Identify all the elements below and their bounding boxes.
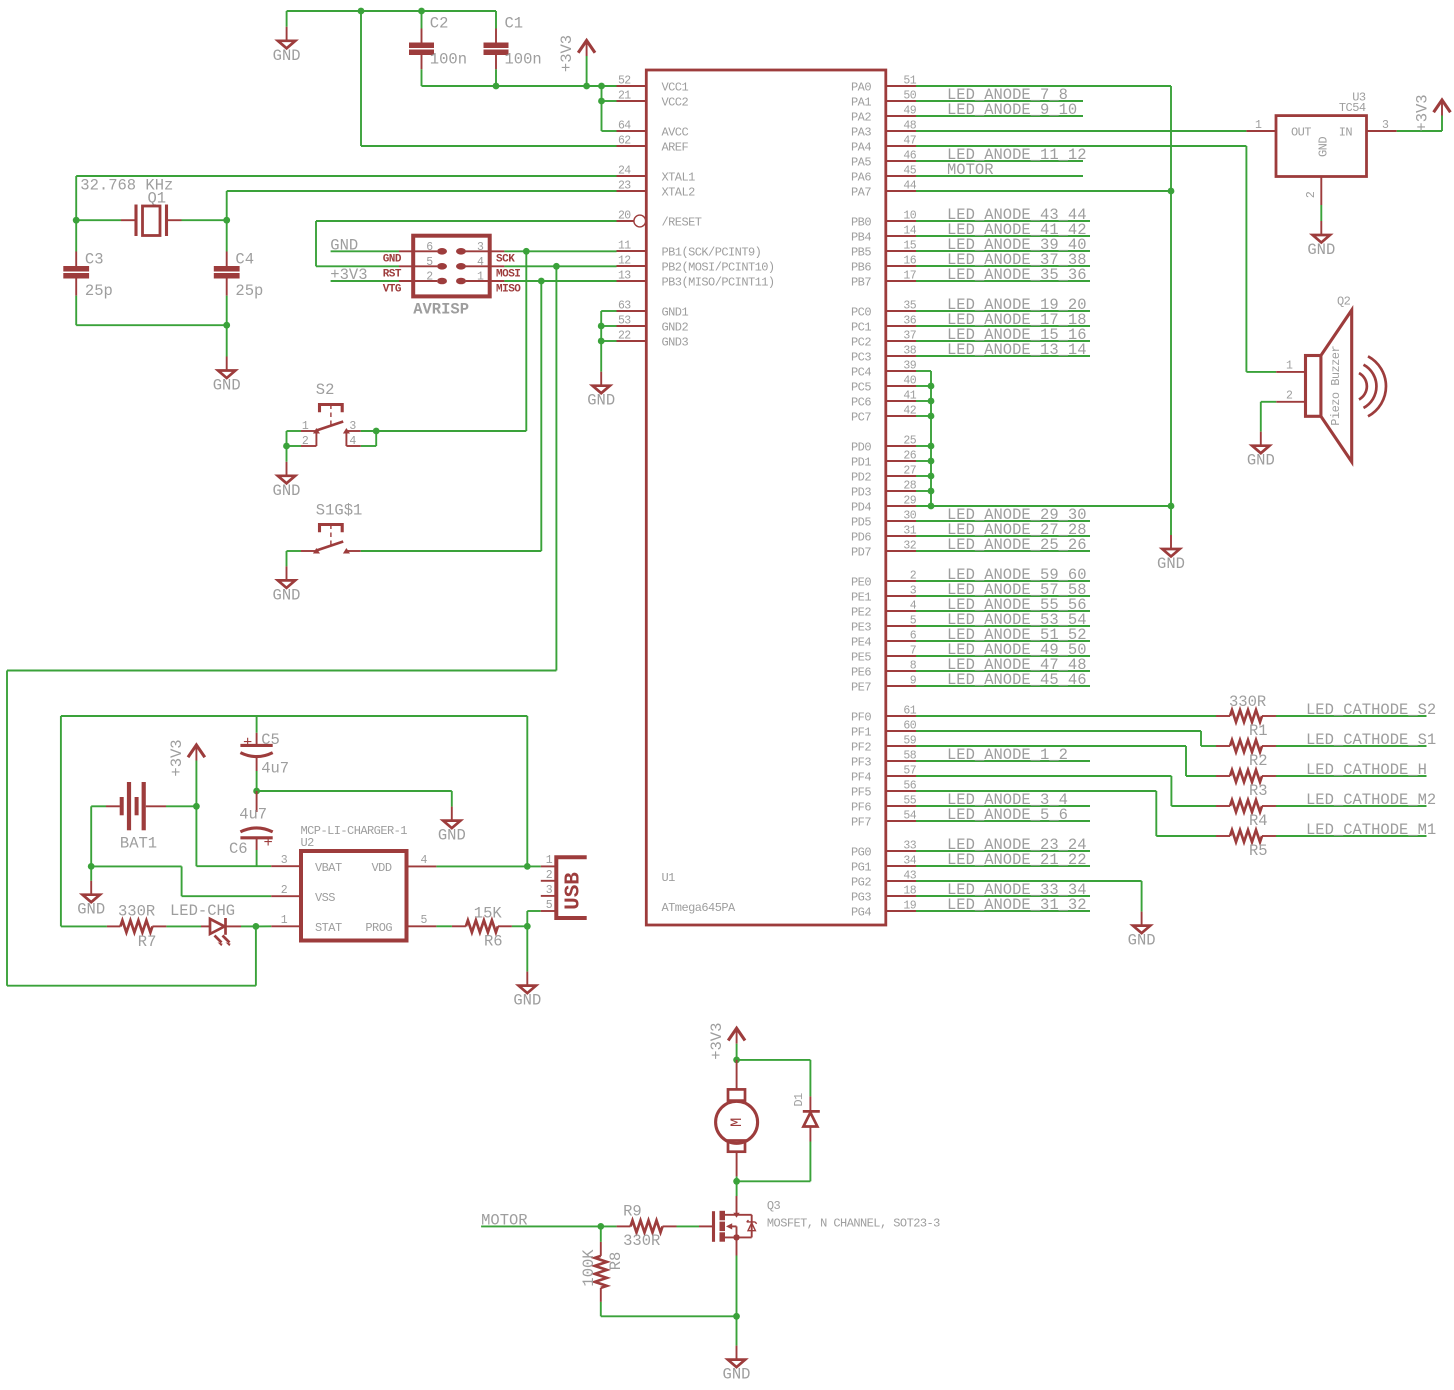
wire AVRISP VTG +3V3 row xyxy=(331,280,399,282)
svg-text:VTG: VTG xyxy=(383,284,402,296)
junction C4 bottom GND node xyxy=(223,322,230,329)
svg-text:22: 22 xyxy=(618,330,631,343)
junction motor / D1 / drain xyxy=(733,1178,740,1185)
svg-text:Q2: Q2 xyxy=(1337,295,1351,309)
junction source / R8 / GND xyxy=(733,1313,740,1320)
svg-text:+3V3: +3V3 xyxy=(330,266,367,284)
wire PG2 to GND xyxy=(916,880,1142,882)
svg-text:R4: R4 xyxy=(1249,812,1268,830)
svg-text:26: 26 xyxy=(903,450,916,463)
transistor Q3 N-channel MOSFET xyxy=(699,1196,757,1256)
svg-text:37: 37 xyxy=(903,330,916,343)
pin 50 PA1 of U1 xyxy=(886,100,916,102)
svg-text:R5: R5 xyxy=(1249,842,1268,860)
svg-text:PG4: PG4 xyxy=(851,906,871,920)
svg-text:14: 14 xyxy=(903,225,916,238)
svg-text:PE0: PE0 xyxy=(851,576,871,590)
svg-text:25: 25 xyxy=(903,435,916,448)
junction battery negative / VSS / GND xyxy=(88,863,95,870)
wire battery positive to +3V3 lead xyxy=(166,805,196,807)
svg-text:10: 10 xyxy=(903,210,916,223)
capacitor C1 xyxy=(484,29,509,70)
svg-text:MOSI: MOSI xyxy=(496,269,520,281)
wire S2 pin3/pin4 to SCK vertical xyxy=(361,430,527,432)
pin 54 PF7 of U1 xyxy=(886,820,916,822)
pin 29 PD4 of U1 xyxy=(886,505,916,507)
wire PC4-PC7/PD0-PD3 bus to PD4 xyxy=(916,370,931,372)
svg-text:GND3: GND3 xyxy=(662,336,689,350)
junction C2 top xyxy=(418,8,425,15)
ground S1G$1 GND xyxy=(273,566,301,604)
wire motor bottom to drain junction xyxy=(736,1176,738,1181)
svg-text:36: 36 xyxy=(903,315,916,328)
pin 23 XTAL2 of U1 xyxy=(617,190,647,192)
svg-text:GND: GND xyxy=(273,586,301,604)
junction VCC vertical top xyxy=(598,83,605,90)
svg-text:PF2: PF2 xyxy=(851,741,871,755)
wire cap midpoint to GND xyxy=(257,790,452,792)
+3V3 supply (motor) xyxy=(708,1023,745,1060)
wire charger +V rail top xyxy=(61,715,527,717)
svg-text:42: 42 xyxy=(903,405,916,418)
svg-text:PE2: PE2 xyxy=(851,606,871,620)
wire LED-CHG to STAT xyxy=(241,925,256,927)
svg-text:LED_ANODE_13_14: LED_ANODE_13_14 xyxy=(947,341,1087,359)
junction MISO vertical xyxy=(538,278,545,285)
wire short pin jog xyxy=(916,475,931,477)
svg-text:24: 24 xyxy=(618,165,631,178)
junction VDD / USB1 / rail xyxy=(524,863,531,870)
svg-text:5: 5 xyxy=(421,914,428,927)
svg-text:PF0: PF0 xyxy=(851,711,871,725)
wire net LED_ANODE_35_36 xyxy=(916,280,1090,282)
pin 1 OUT of U3 xyxy=(1246,130,1276,132)
svg-text:20: 20 xyxy=(618,210,631,223)
wire buzzer pin2 to GND xyxy=(1261,401,1276,403)
+3V3 supply (U3 IN) xyxy=(1414,94,1451,131)
pin 7 PE5 of U1 xyxy=(886,655,916,657)
svg-text:ATmega645PA: ATmega645PA xyxy=(662,901,737,915)
svg-text:1: 1 xyxy=(477,271,484,284)
wire MOSI loop left: top horizontal xyxy=(7,670,556,672)
svg-text:51: 51 xyxy=(903,75,916,88)
pin 55 PF6 of U1 xyxy=(886,805,916,807)
wire net LED_ANODE_39_40 xyxy=(916,250,1090,252)
resistor R2 xyxy=(1216,740,1276,752)
wire net LED_ANODE_43_44 xyxy=(916,220,1090,222)
svg-text:GND: GND xyxy=(723,1366,751,1384)
svg-text:+3V3: +3V3 xyxy=(558,35,576,72)
wire short pin jog xyxy=(916,400,931,402)
piezo buzzer Q2 xyxy=(1306,310,1387,462)
pin 1 STAT of U2 xyxy=(271,925,301,927)
wire battery GND lead xyxy=(90,866,92,880)
svg-text:33: 33 xyxy=(903,840,916,853)
svg-text:GND2: GND2 xyxy=(662,321,689,335)
diode D1 xyxy=(803,1096,820,1141)
pin 44 PA7 of U1 xyxy=(886,190,916,192)
svg-text:12: 12 xyxy=(618,255,631,268)
svg-text:GND: GND xyxy=(1247,452,1275,470)
svg-text:6: 6 xyxy=(910,630,917,643)
svg-text:GND1: GND1 xyxy=(662,306,689,320)
svg-text:R3: R3 xyxy=(1249,782,1268,800)
svg-text:PB7: PB7 xyxy=(851,276,871,290)
svg-text:27: 27 xyxy=(903,465,916,478)
pin 5 PE3 of U1 xyxy=(886,625,916,627)
svg-text:PF6: PF6 xyxy=(851,801,871,815)
svg-text:1: 1 xyxy=(302,420,309,433)
svg-text:57: 57 xyxy=(903,765,916,778)
pin 57 PF4 of U1 xyxy=(886,775,916,777)
svg-text:46: 46 xyxy=(903,150,916,163)
ground S2 GND xyxy=(273,462,301,500)
pin 52 VCC1 of U1 xyxy=(617,85,647,87)
wire net LED_ANODE_31_32 xyxy=(916,910,1090,912)
pin 58 PF3 of U1 xyxy=(886,760,916,762)
svg-text:PD1: PD1 xyxy=(851,456,871,470)
svg-text:63: 63 xyxy=(618,300,631,313)
wire R9 to gate xyxy=(677,1225,700,1227)
wire C2 top lead xyxy=(421,11,423,29)
junction on PC/PD bus xyxy=(928,488,935,495)
svg-text:Piezo Buzzer: Piezo Buzzer xyxy=(1329,346,1343,426)
svg-text:44: 44 xyxy=(903,180,916,193)
svg-text:C2: C2 xyxy=(430,15,449,33)
svg-text:C4: C4 xyxy=(235,251,254,269)
ground U1 GND pins xyxy=(587,372,615,410)
pin 5 PROG of U2 xyxy=(407,925,437,927)
svg-text:VCC1: VCC1 xyxy=(662,81,689,95)
wire short pin jog xyxy=(916,460,931,462)
svg-text:PG3: PG3 xyxy=(851,891,871,905)
svg-text:PD6: PD6 xyxy=(851,531,871,545)
svg-text:LED_CATHODE_H: LED_CATHODE_H xyxy=(1306,761,1427,779)
junction SCK vertical xyxy=(523,248,530,255)
svg-text:RST: RST xyxy=(383,269,402,281)
svg-text:3: 3 xyxy=(281,854,288,867)
ground battery GND xyxy=(77,881,105,919)
wire charger rail right vertical to VDD xyxy=(526,716,528,866)
svg-text:2: 2 xyxy=(910,570,917,583)
pin 1 of Q2 xyxy=(1276,371,1305,373)
svg-text:11: 11 xyxy=(618,240,631,253)
wire drain from junction xyxy=(736,1181,738,1196)
wire VCC2 stub xyxy=(602,100,617,102)
svg-text:PA7: PA7 xyxy=(851,186,871,200)
pin 9 PE7 of U1 xyxy=(886,685,916,687)
capacitor C4 xyxy=(214,252,240,296)
svg-text:PB0: PB0 xyxy=(851,216,871,230)
pin 48 PA3 of U1 xyxy=(886,130,916,132)
svg-text:VCC2: VCC2 xyxy=(662,96,689,110)
wire R8 top lead xyxy=(600,1226,602,1242)
svg-text:LED_CATHODE_M2: LED_CATHODE_M2 xyxy=(1306,791,1436,809)
pin 33 PG0 of U1 xyxy=(886,850,916,852)
svg-text:2: 2 xyxy=(281,884,288,897)
svg-text:R7: R7 xyxy=(138,933,157,951)
wire R7 to LED-CHG xyxy=(166,925,201,927)
wire C5 bottom to junction xyxy=(256,771,258,791)
svg-text:2: 2 xyxy=(1305,191,1318,198)
svg-text:PB3(MISO/PCINT11): PB3(MISO/PCINT11) xyxy=(662,276,775,290)
svg-text:+: + xyxy=(264,834,273,852)
pin 15 PB5 of U1 xyxy=(886,250,916,252)
svg-text:5: 5 xyxy=(910,615,917,628)
svg-text:15: 15 xyxy=(903,240,916,253)
svg-text:PE3: PE3 xyxy=(851,621,871,635)
pin 19 PG4 of U1 xyxy=(886,910,916,912)
svg-text:PC2: PC2 xyxy=(851,336,871,350)
pin 20 /RESET of U1 xyxy=(617,220,635,222)
capacitor C2 xyxy=(409,29,434,70)
wire PA4 to buzzer pin 1 xyxy=(916,145,1246,147)
svg-text:6: 6 xyxy=(426,241,433,254)
pin 8 PE6 of U1 xyxy=(886,670,916,672)
IC U1 ATmega645PA body xyxy=(646,70,886,925)
svg-text:XTAL1: XTAL1 xyxy=(662,171,696,185)
wire R8 bottom to source node xyxy=(600,1302,602,1316)
wire net LED_ANODE_51_52 xyxy=(916,640,1090,642)
svg-text:64: 64 xyxy=(618,120,631,133)
svg-text:PA1: PA1 xyxy=(851,96,871,110)
wire net LED_ANODE_37_38 xyxy=(916,265,1090,267)
pin 49 PA2 of U1 xyxy=(886,115,916,117)
svg-text:+3V3: +3V3 xyxy=(708,1023,726,1060)
pin 51 PA0 of U1 xyxy=(886,85,916,87)
svg-text:PG1: PG1 xyxy=(851,861,871,875)
wire GND lead top-left xyxy=(286,11,288,27)
svg-text:U2: U2 xyxy=(301,836,315,850)
junction STAT node xyxy=(253,923,260,930)
wire C3 top lead xyxy=(75,220,77,251)
svg-text:17: 17 xyxy=(903,270,916,283)
junction S2 pins 3-4 xyxy=(373,428,380,435)
svg-text:30: 30 xyxy=(903,510,916,523)
wire AREF vertical + horizontal to pin 62 xyxy=(360,11,362,146)
wire net LED_ANODE_1_2 xyxy=(916,760,1090,762)
junction battery positive +3V3 xyxy=(193,803,200,810)
pin 26 PD1 of U1 xyxy=(886,460,916,462)
junction C1 bottom xyxy=(493,83,500,90)
wire net LED_ANODE_25_26 xyxy=(916,550,1090,552)
+3V3 supply (battery) xyxy=(168,739,205,776)
pin 53 GND2 of U1 xyxy=(617,325,647,327)
svg-text:GND: GND xyxy=(1307,241,1335,259)
wire net LED_CATHODE_S2 xyxy=(1276,715,1427,717)
resistor R5 xyxy=(1216,830,1276,842)
wire short pin jog xyxy=(916,415,931,417)
wire net LED_CATHODE_M1 xyxy=(1276,835,1427,837)
wire net LED_ANODE_59_60 xyxy=(916,580,1090,582)
svg-text:PD5: PD5 xyxy=(851,516,871,530)
capacitor C5 (polarized) xyxy=(240,733,272,771)
svg-text:S2: S2 xyxy=(316,381,335,399)
wire +3V3 lead xyxy=(586,56,588,86)
svg-text:+3V3: +3V3 xyxy=(1414,94,1432,131)
svg-text:BAT1: BAT1 xyxy=(120,835,157,853)
svg-text:PA0: PA0 xyxy=(851,81,871,95)
pin 11 PB1(SCK/PCINT9) of U1 xyxy=(617,250,647,252)
svg-text:4: 4 xyxy=(349,435,356,448)
junction R6 / USB pin5 / GND xyxy=(524,923,531,930)
svg-text:54: 54 xyxy=(903,810,916,823)
battery BAT1 xyxy=(106,782,166,830)
junction on PC/PD bus xyxy=(928,473,935,480)
junction GND2 xyxy=(598,323,605,330)
svg-text:LED-CHG: LED-CHG xyxy=(170,902,235,920)
svg-text:LED_ANODE_21_22: LED_ANODE_21_22 xyxy=(947,851,1087,869)
svg-text:R1: R1 xyxy=(1249,722,1268,740)
pin 3 IN of U3 xyxy=(1367,130,1397,132)
svg-text:LED_ANODE_35_36: LED_ANODE_35_36 xyxy=(947,266,1087,284)
svg-text:Q3: Q3 xyxy=(767,1199,781,1213)
svg-text:C3: C3 xyxy=(85,251,104,269)
svg-text:25p: 25p xyxy=(235,282,263,300)
svg-text:+: + xyxy=(243,734,252,752)
wire PA3 to U3 OUT xyxy=(916,130,1246,132)
svg-text:PC1: PC1 xyxy=(851,321,871,335)
pin 40 PC5 of U1 xyxy=(886,385,916,387)
ground U3 GND xyxy=(1307,221,1335,259)
wire down to crystal GND xyxy=(226,325,228,356)
wire MISO: AVRISP pin1 to PB3 and S1G$1 xyxy=(504,280,616,282)
wire short pin jog xyxy=(916,490,931,492)
svg-text:49: 49 xyxy=(903,105,916,118)
svg-text:330R: 330R xyxy=(118,903,155,921)
svg-text:AVRISP: AVRISP xyxy=(413,301,469,319)
svg-text:VSS: VSS xyxy=(315,891,335,905)
wire net MOTOR xyxy=(916,175,1083,177)
svg-text:GND: GND xyxy=(438,827,466,845)
svg-text:GND: GND xyxy=(273,47,301,65)
svg-text:SCK: SCK xyxy=(496,254,515,266)
motor M1 xyxy=(716,1060,758,1177)
svg-text:U1: U1 xyxy=(662,871,676,885)
junction motor top / D1 xyxy=(733,1057,740,1064)
svg-text:43: 43 xyxy=(903,870,916,883)
svg-text:31: 31 xyxy=(903,525,916,538)
svg-text:50: 50 xyxy=(903,90,916,103)
svg-text:1: 1 xyxy=(1255,119,1262,132)
junction S2 pins 1-2 xyxy=(283,443,290,450)
pin 60 PF1 of U1 xyxy=(886,730,916,732)
svg-text:7: 7 xyxy=(910,645,916,658)
svg-text:100n: 100n xyxy=(430,51,467,69)
svg-text:GND: GND xyxy=(1128,932,1156,950)
junction PD4 / GND vertical xyxy=(1168,503,1175,510)
svg-text:PF5: PF5 xyxy=(851,786,871,800)
svg-text:S1G$1: S1G$1 xyxy=(316,501,363,519)
pin 31 PD6 of U1 xyxy=(886,535,916,537)
svg-text:PB1(SCK/PCINT9): PB1(SCK/PCINT9) xyxy=(662,246,762,260)
wire crystal right to C4 xyxy=(182,219,227,221)
pin 2 GND of U3 xyxy=(1320,177,1322,206)
pin 32 PD7 of U1 xyxy=(886,550,916,552)
pin 62 AREF of U1 xyxy=(617,145,647,147)
resistor R4 xyxy=(1216,800,1276,812)
resistor R9 xyxy=(617,1220,677,1232)
wire VDD/USB net xyxy=(436,865,540,867)
svg-text:32: 32 xyxy=(903,540,916,553)
svg-text:3: 3 xyxy=(477,241,484,254)
resistor R1 xyxy=(1216,710,1276,722)
wire net LED_ANODE_11_12 xyxy=(916,160,1083,162)
svg-text:PC7: PC7 xyxy=(851,411,871,425)
capacitor C6 (polarized) xyxy=(240,791,272,850)
wire C6 bottom tee to VBAT row xyxy=(256,850,258,866)
junction on PC/PD bus xyxy=(928,458,935,465)
pin 4 PE2 of U1 xyxy=(886,610,916,612)
svg-text:C5: C5 xyxy=(261,731,280,749)
wire D1 bottom to drain junction xyxy=(809,1142,811,1182)
ground USB GND xyxy=(513,972,541,1010)
wire +3V3 down to VBAT row xyxy=(195,761,197,807)
wire net LED_ANODE_21_22 xyxy=(916,865,1090,867)
svg-text:PD7: PD7 xyxy=(851,546,871,560)
svg-text:58: 58 xyxy=(903,750,916,763)
svg-text:PA4: PA4 xyxy=(851,141,871,155)
wire net LED_ANODE_55_56 xyxy=(916,610,1090,612)
wire net LED_ANODE_33_34 xyxy=(916,895,1090,897)
svg-text:18: 18 xyxy=(903,885,916,898)
wire S2 pin1/pin2 to GND xyxy=(287,430,302,432)
wire S1G$1 left contact to GND xyxy=(287,550,302,552)
wire net LED_ANODE_49_50 xyxy=(916,655,1090,657)
svg-text:VBAT: VBAT xyxy=(315,861,342,875)
svg-text:MOSFET, N CHANNEL, SOT23-3: MOSFET, N CHANNEL, SOT23-3 xyxy=(767,1217,940,1231)
wire U3 GND pin down xyxy=(1320,205,1322,221)
svg-text:PC3: PC3 xyxy=(851,351,871,365)
svg-text:TC54: TC54 xyxy=(1339,101,1366,115)
junction on PC/PD bus xyxy=(928,413,935,420)
svg-text:OUT: OUT xyxy=(1291,126,1311,140)
svg-text:59: 59 xyxy=(903,735,916,748)
+3V3 supply (top) xyxy=(558,35,595,72)
svg-text:MISO: MISO xyxy=(496,284,521,296)
wire VCC vertical to VCC2/AVCC xyxy=(601,86,603,131)
IC U2 MCP-LI-CHARGER-1 body xyxy=(301,851,407,941)
wire PF1 to R2 (jog) xyxy=(916,730,1201,732)
wire to motor GND xyxy=(736,1316,738,1345)
wire net LED_CATHODE_M2 xyxy=(1276,805,1427,807)
svg-text:C6: C6 xyxy=(229,840,248,858)
wire crystal left to C3 xyxy=(76,219,121,221)
wire net LED_ANODE_5_6 xyxy=(916,820,1090,822)
svg-text:PE7: PE7 xyxy=(851,681,871,695)
svg-text:M: M xyxy=(728,1118,746,1127)
pin 61 PF0 of U1 xyxy=(886,715,916,717)
wire PD4 row to right vertical xyxy=(916,505,1171,507)
ground top-left GND xyxy=(273,27,301,65)
svg-text:LED_ANODE_1_2: LED_ANODE_1_2 xyxy=(947,746,1068,764)
junction PD4 corner xyxy=(928,503,935,510)
junction on PC/PD bus xyxy=(928,398,935,405)
ground crystal GND xyxy=(213,357,241,395)
svg-text:2: 2 xyxy=(546,869,553,882)
junction on PC/PD bus xyxy=(928,383,935,390)
pin 36 PC1 of U1 xyxy=(886,325,916,327)
ground motor GND xyxy=(723,1346,751,1384)
svg-text:USB: USB xyxy=(563,872,586,910)
svg-text:GND: GND xyxy=(330,237,358,255)
pin 46 PA5 of U1 xyxy=(886,160,916,162)
junction MOSI vertical xyxy=(553,263,560,270)
switch S2 xyxy=(301,405,361,447)
wire net LED_ANODE_15_16 xyxy=(916,340,1090,342)
wire crystal caps bottom bus xyxy=(75,296,77,326)
svg-text:C1: C1 xyxy=(505,15,524,33)
